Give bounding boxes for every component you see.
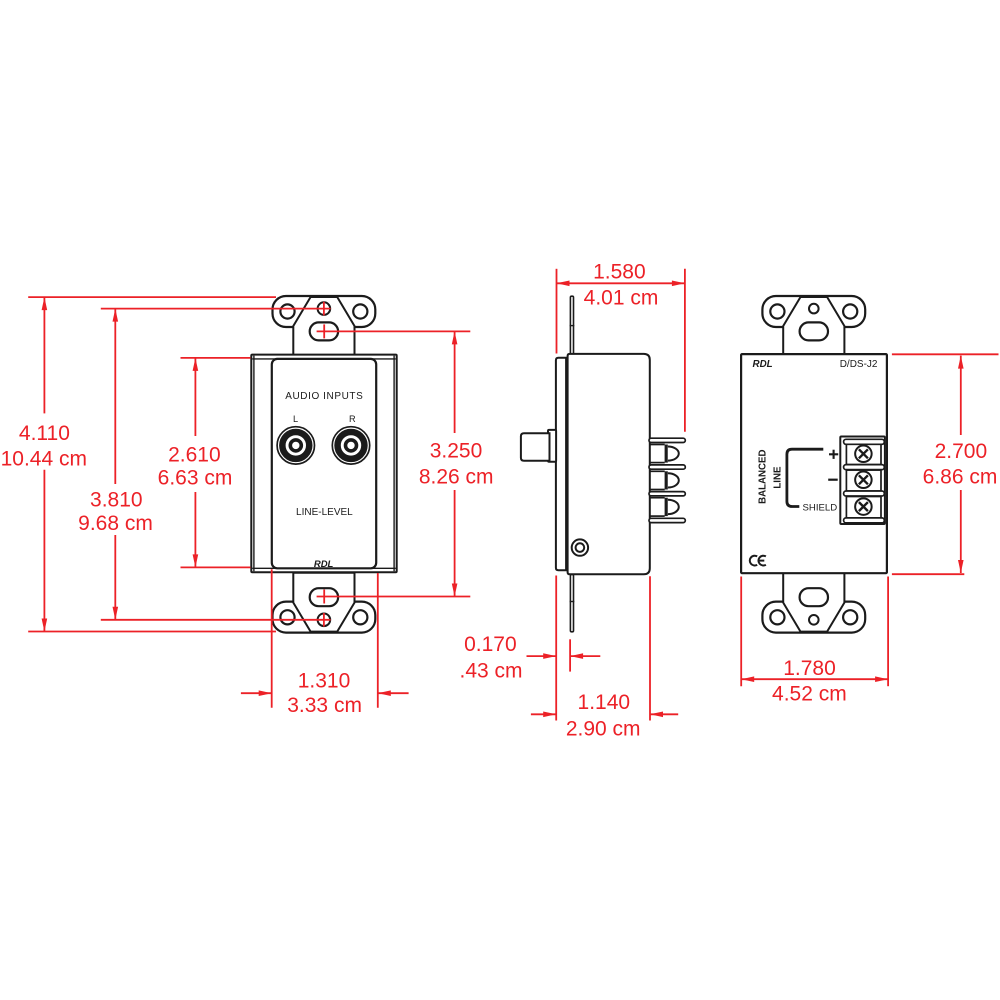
dimension 0.170 / .43 cm bbox=[459, 633, 600, 683]
svg-text:2.610: 2.610 bbox=[168, 444, 221, 467]
side mounting strap lower bbox=[570, 574, 575, 631]
svg-text:4.01 cm: 4.01 cm bbox=[584, 286, 659, 309]
dimension 4.110 / 10.44 cm bbox=[1, 297, 276, 631]
dimension 1.580 / 4.01 cm bbox=[557, 261, 685, 432]
svg-text:BALANCED: BALANCED bbox=[758, 450, 769, 504]
svg-text:R: R bbox=[349, 414, 356, 424]
dimension 2.700 / 6.86 cm bbox=[892, 354, 999, 574]
dimension 1.780 / 4.52 cm bbox=[741, 577, 888, 706]
back RDL logo bbox=[753, 359, 773, 370]
svg-text:1.140: 1.140 bbox=[578, 691, 631, 714]
dimension 3.810 / 9.68 cm bbox=[78, 302, 330, 627]
svg-text:D/DS-J2: D/DS-J2 bbox=[840, 359, 878, 370]
back terminal screws bbox=[855, 446, 872, 515]
side module body bbox=[568, 354, 650, 574]
label LINE-LEVEL bbox=[296, 507, 353, 518]
label L bbox=[293, 414, 298, 424]
side terminal spring clips bbox=[649, 445, 679, 517]
svg-text:4.52 cm: 4.52 cm bbox=[772, 682, 847, 705]
svg-text:1.780: 1.780 bbox=[783, 657, 836, 680]
svg-text:LINE-LEVEL: LINE-LEVEL bbox=[296, 507, 353, 518]
svg-text:8.26 cm: 8.26 cm bbox=[419, 466, 494, 489]
label LINE bbox=[772, 466, 783, 489]
dimension 1.140 / 2.90 cm bbox=[531, 576, 678, 741]
svg-text:.43 cm: .43 cm bbox=[459, 660, 522, 683]
label SHIELD bbox=[803, 502, 838, 513]
CE mark bbox=[750, 556, 766, 566]
back view bottom mounting strap bbox=[762, 573, 865, 633]
side wall plate bbox=[556, 358, 566, 571]
svg-text:LINE: LINE bbox=[772, 466, 783, 489]
svg-text:RDL: RDL bbox=[753, 359, 773, 370]
back module body bbox=[741, 354, 887, 573]
svg-text:3.33 cm: 3.33 cm bbox=[287, 694, 362, 717]
svg-text:1.310: 1.310 bbox=[298, 670, 351, 693]
front plate inner face panel bbox=[272, 359, 376, 568]
front RDL logo bbox=[314, 559, 334, 570]
back terminal block bbox=[840, 437, 885, 525]
side RCA jack barrel bbox=[521, 433, 550, 461]
svg-text:3.810: 3.810 bbox=[90, 489, 143, 512]
RCA jack L bbox=[277, 427, 314, 464]
svg-text:AUDIO INPUTS: AUDIO INPUTS bbox=[285, 391, 363, 402]
dimension 3.250 / 8.26 cm bbox=[317, 324, 494, 603]
svg-text:2.90 cm: 2.90 cm bbox=[566, 718, 641, 741]
front view bottom mounting strap bbox=[273, 573, 376, 633]
balanced line bracket bbox=[787, 449, 823, 506]
side RCA jack flange bbox=[548, 430, 556, 462]
svg-text:0.170: 0.170 bbox=[464, 633, 517, 656]
front wall plate outer frame bbox=[251, 355, 396, 573]
label AUDIO INPUTS bbox=[285, 391, 363, 402]
svg-text:RDL: RDL bbox=[314, 559, 334, 570]
minus terminal mark bbox=[828, 479, 838, 481]
svg-text:L: L bbox=[293, 414, 298, 424]
svg-text:1.580: 1.580 bbox=[593, 261, 646, 284]
svg-text:6.63 cm: 6.63 cm bbox=[158, 467, 233, 490]
svg-text:SHIELD: SHIELD bbox=[803, 502, 838, 513]
svg-text:10.44 cm: 10.44 cm bbox=[1, 447, 87, 470]
svg-text:3.250: 3.250 bbox=[430, 439, 483, 462]
svg-text:6.86 cm: 6.86 cm bbox=[923, 466, 998, 489]
front view top mounting strap bbox=[273, 296, 376, 356]
svg-text:4.110: 4.110 bbox=[19, 422, 70, 445]
side terminal barrier bars bbox=[649, 438, 685, 522]
plus terminal mark bbox=[829, 450, 838, 459]
label R bbox=[349, 414, 356, 424]
dimension 1.310 / 3.33 cm bbox=[241, 569, 409, 717]
back model label D/DS-J2 bbox=[840, 359, 878, 370]
back view top mounting strap bbox=[762, 296, 865, 356]
svg-text:9.68 cm: 9.68 cm bbox=[78, 512, 153, 535]
dimension 2.610 / 6.63 cm bbox=[158, 358, 251, 568]
side mounting strap upper bbox=[570, 296, 575, 355]
svg-text:2.700: 2.700 bbox=[935, 440, 988, 463]
RCA jack R bbox=[332, 427, 369, 464]
side mounting screw bbox=[572, 539, 588, 555]
label BALANCED bbox=[758, 450, 769, 504]
